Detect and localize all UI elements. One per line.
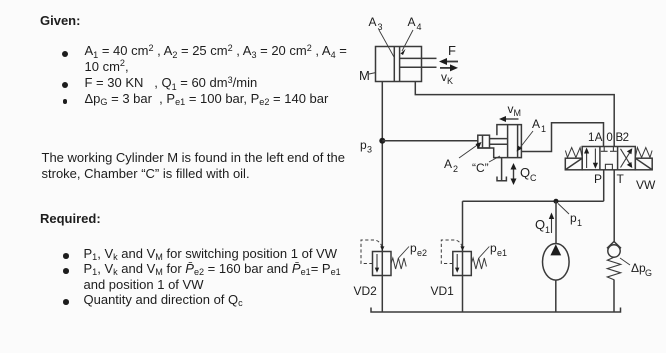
- relief valve VD2: [361, 240, 406, 276]
- svg-text:p: p: [570, 211, 577, 225]
- svg-text:p: p: [490, 241, 497, 255]
- wire p1 horizontal line: [463, 200, 604, 202]
- svg-text:1: 1: [545, 225, 550, 235]
- svg-text:“C”: “C”: [472, 161, 489, 175]
- pump: [543, 243, 570, 280]
- node p3: [360, 138, 385, 155]
- wire M right port to valve B: [415, 82, 614, 147]
- velocity arrow vK: [440, 64, 458, 86]
- svg-text:2: 2: [623, 132, 629, 144]
- vent drain below chamber C: [497, 158, 506, 181]
- svg-text:e2: e2: [417, 248, 427, 258]
- valve position 2 crossed arrows: [621, 148, 633, 168]
- wire pump to tank bus: [555, 280, 557, 312]
- svg-text:P: P: [594, 172, 602, 186]
- check valve with spring (ΔpG): [607, 242, 621, 313]
- label C: [472, 156, 500, 175]
- svg-text:Δp: Δp: [631, 261, 646, 275]
- svg-text:3: 3: [378, 22, 383, 32]
- wire p3 to cylinder A2: [382, 140, 478, 142]
- svg-text:1: 1: [541, 124, 546, 134]
- svg-text:p: p: [360, 138, 367, 152]
- svg-text:F: F: [448, 43, 456, 58]
- valve labels 1 A 0 B 2: [588, 132, 629, 144]
- valve VW body: [582, 147, 635, 170]
- label A3: [369, 15, 395, 57]
- svg-text:e1: e1: [497, 248, 507, 258]
- left text column: [40, 13, 80, 28]
- svg-text:C: C: [530, 173, 537, 183]
- label pe2: [399, 241, 428, 258]
- valve right solenoid: [635, 158, 652, 170]
- cylinder M: [376, 47, 437, 82]
- wire cylinder A1 port to valve A: [521, 123, 603, 152]
- svg-text:4: 4: [417, 22, 422, 32]
- wire down to VD1: [462, 201, 464, 251]
- valve left spring: [565, 148, 582, 158]
- force arrow F: [439, 43, 458, 65]
- svg-text:2: 2: [453, 164, 458, 174]
- stepped cylinder A1/A2 with chamber C: [478, 125, 522, 158]
- wire VD1 to bus: [462, 276, 464, 313]
- label pe1: [479, 241, 507, 258]
- svg-text:M: M: [514, 108, 522, 118]
- valve right spring: [635, 148, 652, 158]
- flow arrow Q1: [535, 213, 554, 236]
- svg-text:M: M: [359, 68, 370, 83]
- wire M left port down to VD2: [381, 82, 383, 252]
- svg-text:A: A: [369, 15, 377, 29]
- svg-text:0: 0: [606, 132, 612, 144]
- valve position 1 arrows: [584, 148, 598, 169]
- wire VD2 to bus: [381, 276, 383, 313]
- tank bus line: [371, 308, 621, 313]
- svg-text:K: K: [447, 76, 453, 86]
- svg-text:A: A: [444, 157, 452, 171]
- wire p1 to pump: [555, 201, 557, 243]
- wire valve P down: [603, 170, 605, 201]
- svg-text:A: A: [595, 132, 603, 144]
- svg-text:Q: Q: [520, 165, 530, 180]
- svg-text:VD1: VD1: [431, 284, 455, 298]
- valve labels P T VW: [594, 172, 656, 192]
- wire valve T down to check valve: [613, 170, 615, 242]
- svg-text:3: 3: [367, 145, 372, 155]
- svg-text:VD2: VD2: [354, 284, 378, 298]
- label A4: [401, 15, 422, 55]
- svg-text:T: T: [617, 172, 625, 186]
- label A1: [517, 117, 546, 152]
- svg-text:Q: Q: [535, 217, 545, 232]
- svg-text:p: p: [410, 241, 417, 255]
- svg-text:1: 1: [588, 132, 594, 144]
- svg-text:VW: VW: [636, 178, 656, 192]
- flow QC double arrow: [511, 163, 538, 185]
- node p1: [554, 199, 583, 228]
- svg-text:A: A: [408, 15, 416, 29]
- valve left solenoid: [565, 158, 582, 170]
- label M: [359, 68, 376, 83]
- svg-text:G: G: [645, 268, 652, 278]
- svg-text:1: 1: [577, 218, 582, 228]
- svg-text:A: A: [532, 117, 540, 131]
- velocity arrow vM: [499, 102, 521, 122]
- label A2: [444, 142, 482, 174]
- relief valve VD1: [441, 240, 486, 276]
- label ΔpG: [620, 258, 652, 278]
- valve position 0 blocked ports: [601, 147, 617, 170]
